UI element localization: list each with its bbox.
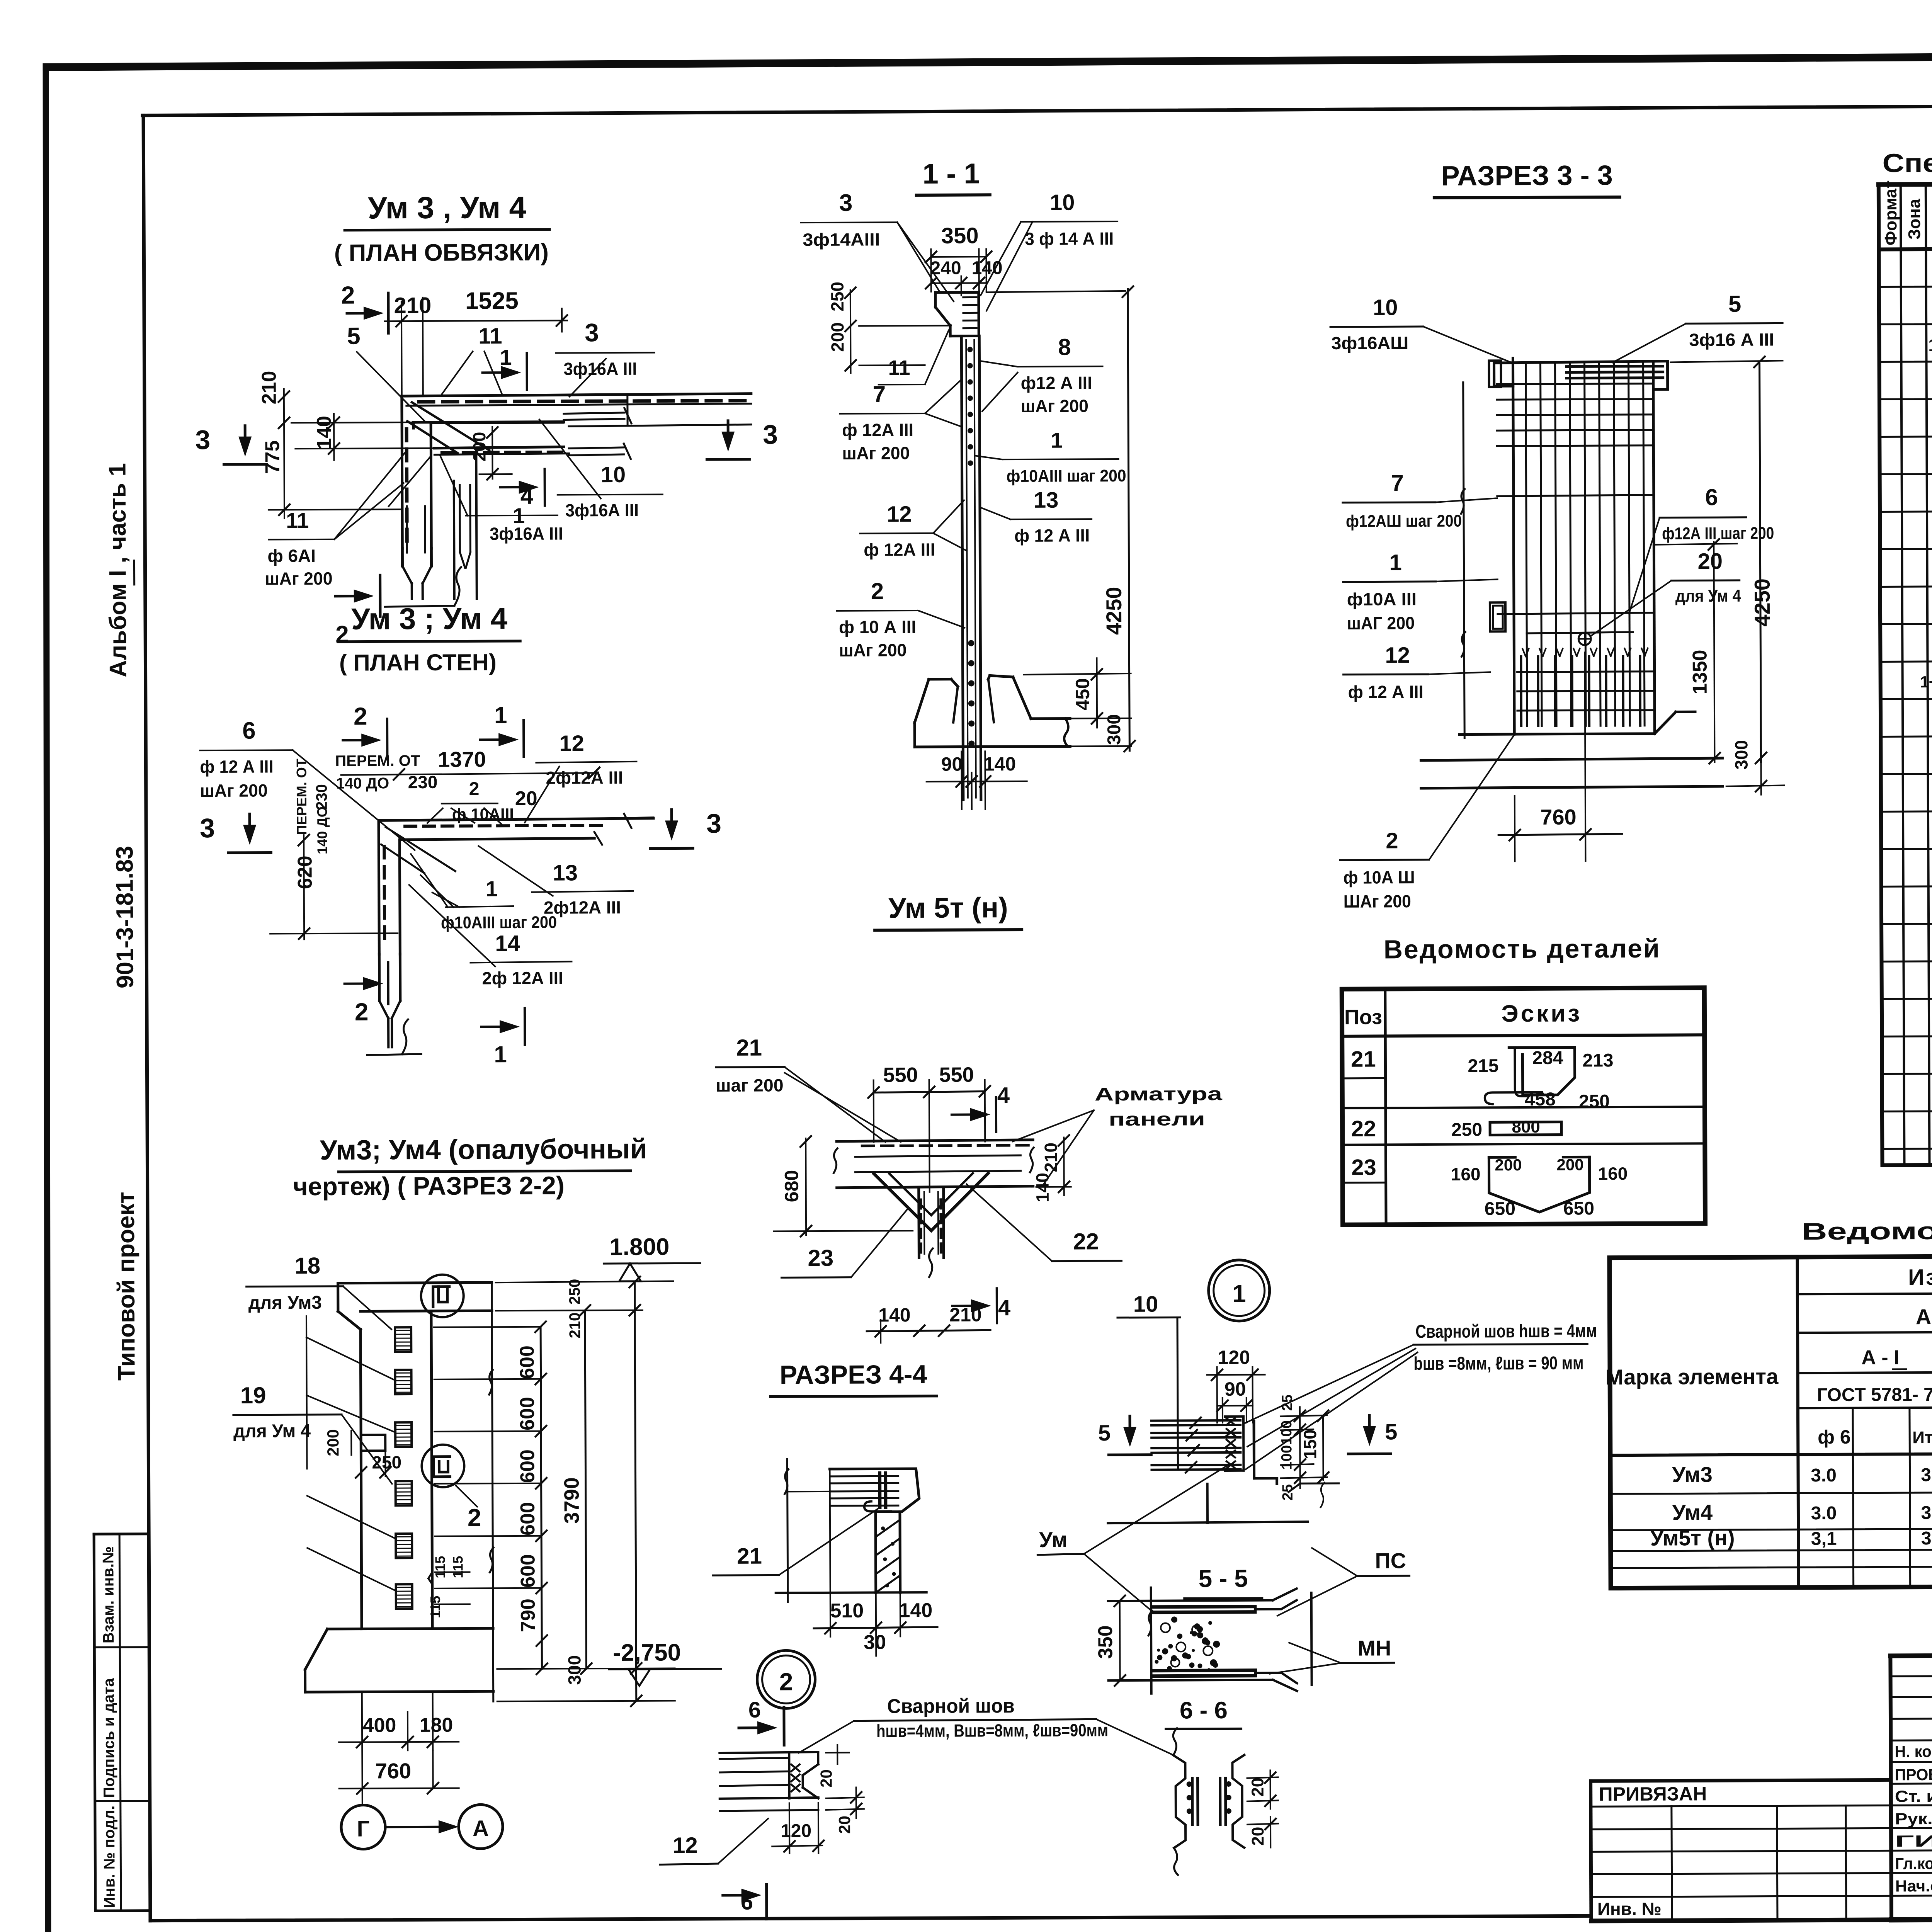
svg-text:6: 6 (748, 1697, 761, 1723)
svg-text:18: 18 (294, 1253, 320, 1279)
svg-text:1 - 1: 1 - 1 (922, 157, 980, 190)
svg-text:ф 12А III: ф 12А III (842, 420, 913, 440)
svg-text:ф12 А III: ф12 А III (1021, 372, 1092, 393)
svg-text:21: 21 (737, 1544, 762, 1569)
left strip bottom label table (94, 1532, 148, 1536)
svg-text:450: 450 (1072, 678, 1094, 711)
svg-text:1÷18: 1÷18 (1928, 335, 1932, 355)
razrez 4-4 slab outline (830, 1469, 919, 1512)
svg-text:Формат: Формат (1881, 180, 1901, 246)
svg-text:ПЕРЕМ. ОТ: ПЕРЕМ. ОТ (335, 752, 420, 770)
svg-text:2ф 12А III: 2ф 12А III (482, 968, 563, 988)
spec table grid (1879, 184, 1883, 1165)
grid center line (492, 1282, 493, 1701)
svg-text:22: 22 (1351, 1116, 1376, 1141)
marker 2 top (plan sten) (343, 739, 370, 741)
svg-text:ПЕРЕМ. ОТ: ПЕРЕМ. ОТ (293, 759, 310, 835)
lower mesh zone (1520, 656, 1522, 726)
section marker 1 top (483, 371, 510, 374)
svg-text:Ум5т (н): Ум5т (н) (1650, 1526, 1735, 1550)
dim col 3790 (585, 1310, 587, 1668)
svg-text:20: 20 (1697, 549, 1723, 574)
svg-text:200: 200 (1495, 1156, 1522, 1174)
svg-text:90: 90 (1225, 1378, 1246, 1400)
svg-text:3ф16 А III: 3ф16 А III (1689, 330, 1774, 350)
svg-text:10: 10 (1133, 1292, 1158, 1317)
wall bottom taper to panel (401, 548, 404, 566)
5-5 bottom lines (1154, 1670, 1255, 1671)
wall section top hat (935, 292, 979, 336)
stem hatch dashes (919, 1200, 922, 1208)
svg-text:3: 3 (195, 425, 210, 455)
svg-text:12: 12 (887, 502, 912, 527)
svg-text:2: 2 (468, 1503, 481, 1531)
ground line 4-4 (776, 1592, 927, 1593)
svg-text:Взам. инв.№: Взам. инв.№ (100, 1546, 117, 1644)
svg-text:3: 3 (585, 318, 599, 347)
svg-text:6: 6 (242, 718, 256, 744)
svg-text:600: 600 (516, 1449, 539, 1483)
small box 250x200 (361, 1435, 385, 1451)
title block signature grid (1891, 1675, 1932, 1676)
protruding rebar right end top leg (564, 413, 624, 414)
svg-text:ГИП: ГИП (1895, 1832, 1932, 1850)
svg-text:120: 120 (781, 1821, 811, 1841)
svg-text:Ум3: Ум3 (1672, 1462, 1713, 1486)
wall faces (361, 1330, 362, 1629)
corner diagonal bent bars (412, 402, 489, 451)
footing of elevation (327, 1628, 493, 1629)
mid-left plate (1490, 602, 1505, 631)
svg-text:2: 2 (469, 779, 480, 799)
dims 400 180 760 bottom (362, 1692, 362, 1805)
inner drawing frame (143, 102, 1932, 116)
5-5 joint drawing (1151, 1588, 1151, 1694)
footing 1-1 (929, 678, 951, 680)
svg-text:11: 11 (478, 323, 502, 349)
svg-text:hшв=4мм, Вшв=8мм, ℓшв=90мм: hшв=4мм, Вшв=8мм, ℓшв=90мм (876, 1720, 1108, 1741)
svg-text:600: 600 (516, 1397, 539, 1430)
right side small notch 115 115 (429, 1572, 432, 1578)
svg-text:200: 200 (324, 1429, 342, 1456)
svg-text:600: 600 (517, 1502, 539, 1536)
title block outer (1890, 1653, 1932, 1656)
uzel1 L-plate (1253, 1421, 1256, 1478)
svg-text:90: 90 (941, 753, 963, 775)
svg-text:ф 12 А III: ф 12 А III (1348, 682, 1423, 702)
hat rebar dots (963, 296, 976, 298)
svg-text:5 - 5: 5 - 5 (1198, 1565, 1248, 1592)
razrez 3-3 wall outline (1494, 361, 1668, 363)
svg-text:2: 2 (779, 1668, 793, 1696)
svg-text:4: 4 (998, 1295, 1011, 1320)
plan sten right end break (594, 832, 602, 845)
stem lower rebar dots (968, 640, 974, 646)
markers 5 5 (1128, 1416, 1131, 1435)
dims 210 140 right (1063, 1138, 1065, 1196)
section marker 2 bottom (335, 595, 362, 597)
svg-text:Ст. инж: Ст. инж (1895, 1787, 1932, 1806)
svg-text:Изделия арматурные: Изделия арматурные (1908, 1264, 1932, 1290)
svg-text:ф10А III: ф10А III (1347, 589, 1417, 609)
sheet outer frame (47, 53, 1932, 67)
right dim 4250 razrez33 (1760, 364, 1761, 762)
horizontal rebar rows upper (1497, 384, 1651, 384)
svg-text:1350: 1350 (1689, 650, 1711, 694)
svg-text:5: 5 (1728, 291, 1742, 317)
uzel1 panel rebars (1151, 1419, 1240, 1422)
svg-text:5: 5 (347, 323, 361, 350)
svg-text:3.0: 3.0 (1921, 1465, 1932, 1485)
svg-text:25: 25 (1280, 1484, 1296, 1500)
stem below panel (917, 1187, 920, 1258)
svg-text:3.0: 3.0 (1921, 1503, 1932, 1523)
svg-text:3.0: 3.0 (1811, 1465, 1837, 1486)
svg-text:115: 115 (450, 1556, 466, 1578)
vedomost detaley table (1342, 988, 1705, 1225)
svg-text:21: 21 (1351, 1046, 1376, 1071)
svg-text:5: 5 (1098, 1420, 1111, 1446)
wall plan outline (402, 394, 751, 396)
svg-text:6 - 6: 6 - 6 (1180, 1697, 1228, 1724)
uzel1 wall below (1206, 1484, 1209, 1523)
svg-text:3ф16А III: 3ф16А III (563, 359, 637, 379)
svg-text:12: 12 (673, 1833, 698, 1858)
slab rebar lines (830, 1475, 898, 1478)
svg-text:Поз: Поз (1344, 1005, 1382, 1029)
svg-text:( ПЛАН ОБВЯЗКИ): ( ПЛАН ОБВЯЗКИ) (334, 239, 549, 267)
svg-text:1: 1 (1051, 428, 1063, 452)
svg-text:чертеж) ( РАЗРЕЗ 2-2): чертеж) ( РАЗРЕЗ 2-2) (293, 1171, 565, 1201)
svg-text:для Ум 4: для Ум 4 (233, 1421, 311, 1442)
svg-text:600: 600 (517, 1554, 539, 1588)
svg-text:Ум 3 ; Ум 4: Ум 3 ; Ум 4 (351, 601, 507, 636)
svg-text:ф12АШ шаг 200: ф12АШ шаг 200 (1346, 512, 1462, 531)
svg-text:800: 800 (1512, 1117, 1540, 1136)
svg-text:3ф16А III: 3ф16А III (565, 500, 639, 520)
svg-text:Н. контр.: Н. контр. (1895, 1742, 1932, 1761)
svg-text:20: 20 (835, 1816, 854, 1834)
svg-text:4: 4 (520, 483, 534, 509)
Um5t panel drawing (837, 1140, 1033, 1141)
svg-text:Ум 5т (н): Ум 5т (н) (888, 891, 1008, 924)
section marker 1 bottom (500, 486, 527, 488)
dims 450 300 4250 (1024, 673, 1131, 675)
svg-text:213: 213 (1582, 1050, 1613, 1071)
node circle 1 (421, 1275, 464, 1317)
svg-text:ГОСТ 5781- 75: ГОСТ 5781- 75 (1817, 1384, 1932, 1405)
svg-text:600: 600 (516, 1345, 538, 1379)
svg-text:620: 620 (294, 855, 316, 889)
svg-text:3ф16А III: 3ф16А III (490, 524, 563, 544)
vertical rebar curtain (1526, 363, 1527, 726)
svg-text:2: 2 (871, 578, 884, 604)
wall stem (961, 336, 963, 800)
svg-text:10: 10 (1050, 190, 1075, 215)
svg-text:РАЗРЕЗ 4-4: РАЗРЕЗ 4-4 (780, 1360, 927, 1389)
svg-text:шАг 200: шАг 200 (1021, 396, 1088, 416)
svg-text:3: 3 (839, 190, 853, 216)
svg-text:8: 8 (1058, 334, 1071, 360)
marker 3 left right plan sten (248, 814, 251, 833)
svg-text:20: 20 (1248, 1778, 1267, 1797)
svg-text:ф 12А III: ф 12А III (864, 539, 935, 560)
svg-text:3: 3 (763, 419, 778, 449)
svg-text:А: А (473, 1816, 489, 1841)
svg-text:Типовой проект: Типовой проект (113, 1192, 140, 1381)
svg-text:ф10АIII шаг 200: ф10АIII шаг 200 (1007, 466, 1126, 486)
svg-text:23: 23 (1351, 1155, 1376, 1180)
svg-text:11: 11 (888, 356, 910, 379)
svg-text:210: 210 (566, 1313, 583, 1338)
svg-text:25: 25 (1279, 1395, 1296, 1411)
svg-text:10: 10 (1373, 295, 1398, 320)
svg-text:180: 180 (420, 1714, 453, 1736)
svg-text:3.0: 3.0 (1811, 1503, 1837, 1524)
uzel2 dims 20 20 120 (826, 1752, 849, 1753)
svg-text:шАг 200: шАг 200 (265, 568, 333, 589)
svg-text:250: 250 (1451, 1119, 1482, 1140)
svg-text:Ум4: Ум4 (1672, 1500, 1713, 1524)
svg-text:ф 12 А III: ф 12 А III (1014, 525, 1090, 546)
svg-text:Инв. № подл.: Инв. № подл. (101, 1806, 118, 1908)
slab bold bars (878, 1473, 881, 1507)
svg-text:ПРОВЕР.: ПРОВЕР. (1895, 1765, 1932, 1784)
horizontal rebar mid (1497, 495, 1654, 497)
svg-text:215: 215 (1468, 1056, 1498, 1076)
svg-text:21: 21 (736, 1035, 762, 1061)
svg-text:100: 100 (1279, 1420, 1295, 1445)
svg-text:12: 12 (559, 731, 584, 756)
svg-text:Ведомость расхода стали: Ведомость расхода стали на элемент , кг. (1801, 1216, 1932, 1245)
bottom break line (385, 606, 454, 607)
svg-text:шАг 200: шАг 200 (200, 780, 268, 801)
svg-text:250: 250 (1579, 1091, 1610, 1112)
svg-text:Арматура класса: Арматура класса (1916, 1304, 1932, 1329)
svg-text:1370: 1370 (438, 747, 486, 771)
svg-text:150: 150 (1300, 1429, 1320, 1459)
dim 680 left (805, 1138, 807, 1235)
svg-text:1÷17,19: 1÷17,19 (1920, 672, 1932, 691)
top-left plate notch (1489, 361, 1501, 387)
svg-text:Итого: Итого (1912, 1428, 1932, 1447)
svg-text:22: 22 (1073, 1228, 1099, 1254)
svg-text:3ф16АШ: 3ф16АШ (1331, 333, 1408, 353)
title block left attach part (1591, 1780, 1891, 1781)
svg-text:Сварной шов: Сварной шов (887, 1695, 1015, 1718)
svg-text:шАг 200: шАг 200 (839, 640, 906, 660)
6-6 dims 20 20 (1247, 1777, 1278, 1778)
svg-text:1: 1 (1232, 1280, 1246, 1308)
uzel1 weld plate (1222, 1415, 1223, 1473)
svg-text:160: 160 (1451, 1164, 1481, 1184)
svg-text:350: 350 (941, 223, 979, 248)
svg-text:2: 2 (341, 281, 355, 309)
leg below (874, 1512, 877, 1592)
sect 3 markers left right (244, 426, 247, 445)
svg-text:Зона: Зона (1905, 199, 1924, 240)
svg-text:Альбом I , часть 1: Альбом I , часть 1 (104, 463, 131, 677)
svg-text:3,1: 3,1 (1921, 1528, 1932, 1549)
svg-text:4250: 4250 (1102, 587, 1126, 635)
svg-text:650: 650 (1563, 1198, 1594, 1219)
svg-text:Рук. гр.: Рук. гр. (1895, 1810, 1932, 1828)
svg-text:2: 2 (1386, 828, 1398, 853)
svg-text:Арматура: Арматура (1095, 1084, 1223, 1105)
stem bottom break (918, 1258, 920, 1336)
svg-text:23: 23 (808, 1245, 833, 1271)
node circle 2 big (757, 1650, 815, 1709)
svg-text:120: 120 (1218, 1347, 1250, 1368)
svg-text:2: 2 (354, 702, 367, 730)
svg-text:11: 11 (286, 508, 309, 532)
svg-text:Ум 3 , Ум 4: Ум 3 , Ум 4 (368, 190, 527, 225)
svg-text:ф 10А Ш: ф 10А Ш (1344, 867, 1415, 888)
svg-text:ф 12 А III: ф 12 А III (200, 756, 273, 777)
marker 1 top (plan sten) (480, 738, 507, 741)
svg-text:20: 20 (1248, 1827, 1267, 1846)
plan sten wall outline (379, 818, 653, 821)
svg-text:250: 250 (372, 1452, 401, 1472)
svg-text:115: 115 (427, 1596, 443, 1618)
svg-text:760: 760 (375, 1759, 412, 1783)
svg-text:шаг 200: шаг 200 (716, 1075, 784, 1095)
svg-text:Подпись и дата: Подпись и дата (100, 1678, 118, 1798)
svg-text:210: 210 (949, 1304, 982, 1325)
svg-text:Спецификация монолитных уч: Спецификация монолитных участков Ум3; Ум… (1882, 145, 1932, 178)
svg-text:140: 140 (313, 416, 335, 449)
svg-text:400: 400 (363, 1714, 396, 1736)
svg-text:140: 140 (899, 1599, 932, 1622)
svg-text:1: 1 (494, 702, 507, 728)
dim 350 5-5 (1119, 1601, 1121, 1680)
svg-text:7: 7 (873, 381, 886, 407)
svg-text:300: 300 (1731, 740, 1751, 770)
dim col right 210 250 300 (635, 1282, 636, 1701)
bold top bars (1566, 365, 1663, 368)
leader lines from 18 to plates (306, 1316, 307, 1469)
svg-text:bшв =8мм, ℓшв = 90 мм: bшв =8мм, ℓшв = 90 мм (1413, 1353, 1583, 1374)
svg-text:458: 458 (1525, 1089, 1556, 1110)
svg-text:140 ДО: 140 ДО (336, 775, 389, 792)
svg-text:210: 210 (258, 371, 281, 405)
svg-text:( ПЛАН СТЕН): ( ПЛАН СТЕН) (339, 649, 497, 676)
svg-text:10: 10 (600, 462, 626, 487)
left wall rebar dashes (405, 429, 408, 440)
svg-text:ф 10 А III: ф 10 А III (839, 617, 916, 637)
svg-text:550: 550 (939, 1063, 974, 1086)
svg-text:901-3-181.83: 901-3-181.83 (111, 846, 138, 988)
panel left right break (836, 1141, 837, 1188)
dim 1350 (1714, 542, 1714, 762)
svg-text:4: 4 (997, 1083, 1010, 1108)
svg-text:115: 115 (432, 1556, 448, 1578)
svg-text:3,1: 3,1 (1811, 1529, 1837, 1549)
5-5 right edge (1310, 1593, 1313, 1685)
svg-text:140: 140 (984, 753, 1016, 775)
svg-text:100: 100 (1279, 1445, 1295, 1470)
svg-text:14: 14 (495, 931, 520, 956)
steel table grid (1609, 1253, 1932, 1588)
node circle 2 (422, 1445, 464, 1487)
svg-text:284: 284 (1532, 1048, 1563, 1068)
uzel1 dims right 25 100 100 25 150 (1281, 1415, 1327, 1416)
svg-text:МН: МН (1357, 1636, 1391, 1660)
svg-text:160: 160 (1598, 1163, 1628, 1184)
svg-text:550: 550 (883, 1063, 918, 1087)
svg-text:300: 300 (1104, 714, 1124, 745)
svg-text:РАЗРЕЗ 3 - 3: РАЗРЕЗ 3 - 3 (1441, 160, 1612, 192)
svg-text:250: 250 (827, 282, 847, 311)
svg-text:1.800: 1.800 (609, 1234, 669, 1261)
svg-text:для Ум 4: для Ум 4 (1675, 587, 1742, 606)
svg-text:140 ДО: 140 ДО (314, 806, 330, 854)
svg-text:300: 300 (564, 1655, 584, 1685)
svg-text:4250: 4250 (1750, 578, 1774, 627)
svg-text:ПС: ПС (1375, 1548, 1406, 1573)
svg-text:А - I: А - I (1861, 1346, 1899, 1369)
uzel 2 detail drawing (719, 1752, 818, 1753)
razrez 3-3 footing (1459, 734, 1655, 735)
svg-text:760: 760 (1540, 804, 1577, 829)
svg-text:230: 230 (313, 784, 330, 810)
svg-text:1525: 1525 (465, 287, 519, 315)
svg-text:140: 140 (878, 1304, 911, 1326)
dim col 600s (541, 1327, 542, 1669)
svg-text:панели: панели (1109, 1109, 1205, 1130)
marker 2 bottom plan sten (345, 982, 372, 985)
svg-text:3 ф 14 А III: 3 ф 14 А III (1025, 228, 1114, 249)
svg-text:3: 3 (706, 808, 721, 838)
svg-text:Нач.отд.: Нач.отд. (1895, 1877, 1932, 1895)
svg-text:680: 680 (781, 1170, 803, 1202)
svg-text:2: 2 (335, 621, 349, 648)
svg-text:3790: 3790 (560, 1477, 583, 1524)
second leg lines (434, 447, 564, 448)
left dim lines 4-4 (787, 1459, 787, 1602)
svg-text:ПРИВЯЗАН: ПРИВЯЗАН (1599, 1783, 1707, 1805)
leg concrete hatch (877, 1520, 899, 1536)
svg-text:200: 200 (1556, 1155, 1583, 1173)
svg-text:13: 13 (1034, 488, 1059, 513)
plan sten bottom leg (378, 954, 381, 1001)
left dim line razrez33 (1463, 383, 1465, 738)
svg-text:шАГ 200: шАГ 200 (1347, 613, 1415, 633)
svg-text:Инв. №: Инв. № (1597, 1899, 1662, 1919)
svg-text:Сварной шов hшв = 4мм: Сварной шов hшв = 4мм (1415, 1321, 1597, 1342)
svg-text:для Ум3: для Ум3 (248, 1293, 322, 1313)
svg-text:5: 5 (1385, 1419, 1398, 1444)
embedded plates (395, 1327, 411, 1352)
svg-text:19: 19 (240, 1383, 266, 1408)
top slab of wall elevation (338, 1282, 492, 1283)
svg-text:Марка элемента: Марка элемента (1605, 1364, 1779, 1389)
svg-text:Ведомость деталей: Ведомость деталей (1384, 934, 1661, 964)
svg-text:1: 1 (1389, 550, 1402, 575)
svg-text:2: 2 (355, 998, 369, 1026)
svg-text:200: 200 (827, 322, 847, 352)
svg-text:ф 6АI: ф 6АI (267, 546, 316, 566)
svg-text:30: 30 (864, 1631, 886, 1653)
svg-text:510: 510 (830, 1600, 864, 1622)
svg-text:1: 1 (486, 876, 498, 901)
svg-text:200: 200 (469, 432, 489, 462)
svg-text:650: 650 (1485, 1199, 1515, 1219)
marker 1 bottom plan sten (481, 1026, 508, 1028)
svg-text:210: 210 (394, 293, 431, 318)
svg-text:Эскиз: Эскиз (1502, 1000, 1582, 1027)
footing inner taper (953, 687, 958, 723)
